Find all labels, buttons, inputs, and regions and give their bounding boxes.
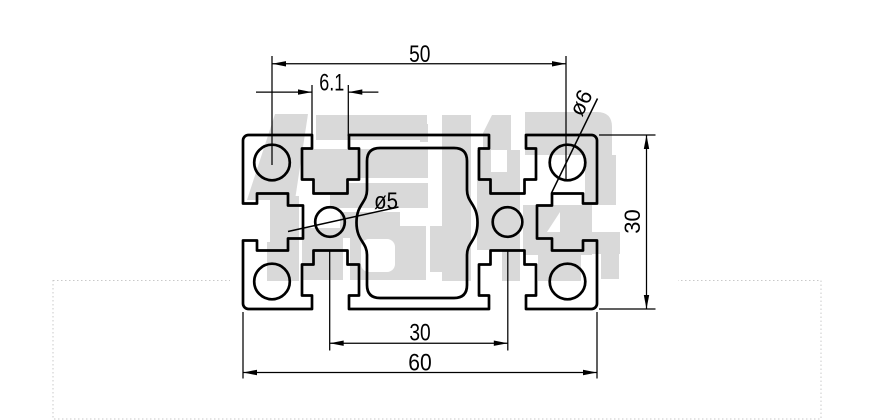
dim 60 left arrowhead xyxy=(243,370,257,375)
white canvas of CAD drawing image xyxy=(230,0,678,412)
dim 60 right arrowhead xyxy=(583,370,597,375)
dim 30 bottom dimension line xyxy=(330,342,508,344)
leader line for ø5 xyxy=(288,207,399,232)
dim 30 right top arrowhead xyxy=(644,135,649,149)
dim 30 bottom right arrowhead xyxy=(494,341,508,346)
mid hole left (ø5) xyxy=(315,207,345,237)
dim 30 right top extension line xyxy=(599,134,656,136)
svg-text:ø5: ø5 xyxy=(374,187,398,214)
svg-text:60: 60 xyxy=(408,349,431,376)
dim 50 left arrowhead xyxy=(272,61,286,66)
dim 50 right extension line xyxy=(565,56,567,180)
svg-text:50: 50 xyxy=(409,40,430,68)
watermark (light gray brand characters) xyxy=(247,112,620,281)
dim 30 bottom right extension line xyxy=(507,250,509,351)
corner hole bottom-right (ø6) xyxy=(550,264,586,300)
corner hole top-right (ø6) xyxy=(550,145,586,181)
dim 60 right extension line xyxy=(596,312,598,379)
dim 6.1 right arrowhead xyxy=(348,89,362,94)
leader line for ø6 xyxy=(552,99,598,194)
dim 6.1 right extension line xyxy=(347,85,349,136)
dim 6.1 left tail line xyxy=(256,91,312,93)
center cavity outline xyxy=(357,148,478,298)
corner hole top-left (ø6) xyxy=(254,145,290,181)
dim 30 right bottom extension line xyxy=(599,308,656,310)
profile outer outline with six T-slots xyxy=(243,135,597,309)
watermark white counter (rounded window) xyxy=(361,239,395,272)
corner hole bottom-left (ø6) xyxy=(254,264,290,300)
svg-text:30: 30 xyxy=(620,209,645,233)
dim 60 dimension line xyxy=(243,372,597,374)
dim 6.1 left extension line xyxy=(311,85,313,136)
watermark white counter (triangle) xyxy=(547,212,560,232)
svg-text:30: 30 xyxy=(409,319,430,347)
dim 50 left extension line xyxy=(271,56,273,165)
mid hole right (ø5) xyxy=(493,207,523,237)
dim 30 bottom left extension line xyxy=(329,250,331,351)
dim 50 right arrowhead xyxy=(552,61,566,66)
dim 30 bottom left arrowhead xyxy=(330,341,344,346)
dim 6.1 right tail line xyxy=(348,91,378,93)
dim 30 right dimension line xyxy=(646,135,648,309)
dim 60 left extension line xyxy=(242,312,244,379)
svg-text:6.1: 6.1 xyxy=(319,70,344,96)
dim 30 right bottom arrowhead xyxy=(644,295,649,309)
dotted table cell border xyxy=(53,281,821,420)
dim 50 dimension line xyxy=(272,63,566,65)
dim 6.1 left arrowhead xyxy=(298,89,312,94)
